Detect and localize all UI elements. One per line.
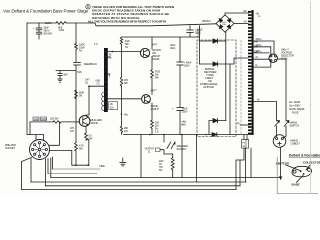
wire R4 to TR3 (61, 121, 80, 123)
wire x225.8 down (225, 41, 227, 121)
wire left rail (26, 23, 28, 135)
wire feedback tap y70 (56, 70, 76, 72)
wire socket lower right stub (49, 150, 72, 152)
resistor R9 (171, 158, 174, 171)
jack switch symbol (167, 142, 171, 149)
terminal strip bar (252, 10, 254, 135)
wire bias y122 (30, 121, 53, 123)
svg-text:250VAC: 250VAC (202, 19, 211, 23)
wire bottom bus A (51, 177, 281, 179)
svg-text:Tr4?: Tr4? (152, 43, 157, 47)
junction 45v (121, 113, 123, 115)
transistor TR2 (142, 95, 151, 104)
svg-text:RHS: RHS (41, 117, 46, 121)
svg-text:600 SW: 600 SW (44, 32, 53, 36)
wire to R9 (172, 154, 174, 158)
wire strip bottom legs (239, 160, 241, 186)
wire TR1 collector up (151, 37, 153, 49)
transformer T1 winding arcs (102, 92, 104, 110)
wire corner to strip (234, 58, 248, 64)
wire collector rail y37 (122, 36, 200, 38)
svg-text:(4): (4) (109, 56, 112, 60)
wire drop x196.5 (196, 135, 198, 183)
resistor R5 (120, 126, 122, 133)
svg-text:SOCKET: SOCKET (5, 146, 15, 150)
wire inverted U (72, 151, 89, 166)
svg-text:SWITCH: SWITCH (290, 124, 300, 128)
TO-3 package outline (292, 166, 312, 177)
wire top bus right of R1 (67, 22, 96, 24)
svg-text:NKT?: NKT? (151, 89, 158, 93)
transformer T1 core bar (104, 48, 108, 112)
svg-text:8uF: 8uF (64, 73, 69, 77)
svg-text:4 A: 4 A (244, 20, 248, 24)
resistor R8 (151, 120, 154, 128)
wire diode row C (209, 120, 226, 122)
wire fuse down (236, 148, 244, 189)
svg-text:m.: m. (258, 15, 261, 18)
wire socket second top (35, 135, 37, 141)
wire bottom stub E (53, 168, 100, 170)
diode D2 (213, 62, 218, 66)
resistor R5b mid (120, 77, 122, 86)
resistor R7 (151, 70, 154, 79)
wire strip to fuse (243, 135, 245, 140)
svg-text:AD149: AD149 (152, 57, 160, 61)
svg-text:(40v): (40v) (170, 46, 175, 50)
svg-text:(T): (T) (97, 82, 100, 86)
wire output drop (163, 135, 165, 143)
junction dot (112, 51, 114, 53)
svg-text:AD149: AD149 (91, 121, 99, 125)
wire bottom bus C (45, 185, 240, 187)
transistor TR1 (140, 48, 149, 57)
wire rail corner to socket (27, 135, 44, 141)
resistor R11 (75, 143, 78, 151)
switch S2 (284, 121, 288, 126)
wire fuse right leg (250, 148, 252, 177)
junction dot mid rail (121, 51, 123, 53)
svg-text:240v~: 240v~ (256, 37, 263, 41)
wire socket pin drops (22, 158, 32, 190)
wire T1 top to TR1 (108, 51, 141, 53)
wire x209 to bus (208, 121, 210, 135)
resistor R10 (85, 133, 88, 140)
svg-text:T.C.: T.C. (94, 42, 98, 46)
TO-3 pins (300, 170, 302, 172)
capacitor C1a plates (36, 27, 42, 29)
wire reservoir rail x180 (179, 37, 181, 62)
wire diode row B (200, 63, 235, 65)
wire HT mid vertical (121, 45, 123, 77)
terminal strip teeth (248, 11, 252, 134)
mains plug circle (273, 135, 286, 148)
wire plug down (280, 147, 282, 178)
capacitor C2 feedback (74, 61, 81, 63)
svg-text:Vox Defiant & Foundation Bass: Vox Defiant & Foundation Bass Power Stag… (3, 9, 89, 14)
wire mid vertical lower (121, 86, 123, 126)
label boxed LHS (33, 117, 39, 121)
svg-text:COLLECTOR: COLLECTOR (303, 160, 320, 164)
svg-text:PLUG: PLUG (281, 57, 288, 61)
svg-text:ALL THE VOLTAGE READINGS WIT: ALL THE VOLTAGE READINGS WITH RESPECT TO… (88, 20, 166, 24)
wire bottom bus B (31, 181, 246, 183)
wire below R2 (75, 50, 77, 63)
wire diode row A (200, 40, 226, 42)
wire fuse feed (253, 102, 276, 121)
resistor R2 (75, 44, 78, 50)
wire R8 to bus (151, 128, 153, 134)
wire x76 below bias (75, 122, 77, 143)
diode D4 (213, 119, 218, 123)
ground C3 (58, 78, 62, 80)
transformer tap marks (108, 56, 110, 58)
mains selector circle (269, 54, 277, 62)
wire switches to plug (276, 126, 278, 137)
wire screen branch vertical x76 (75, 23, 77, 44)
resistor R3 on x76 (75, 90, 78, 99)
wire R7 to TR2 (151, 78, 153, 95)
wire bridge top out (225, 13, 249, 15)
junction dot U (87, 164, 89, 166)
fuse box FS1 (242, 140, 249, 149)
svg-text:Defiant & Foundation: Defiant & Foundation (289, 153, 320, 157)
bridge diode blades (219, 19, 222, 23)
svg-text:8.2K: 8.2K (77, 70, 82, 74)
wire R5 to bus (121, 133, 123, 135)
wire TR1 emitter down (151, 57, 153, 70)
wire bridge bottom down (225, 32, 227, 41)
svg-text:AS BY100: AS BY100 (203, 85, 214, 89)
svg-text:BASE: BASE (292, 182, 300, 186)
wire bias left drop (29, 122, 31, 135)
capacitor C1b plates (36, 31, 42, 33)
label boxed RHS (41, 117, 47, 121)
junction dot tap (88, 85, 90, 87)
svg-text:0.68u: 0.68u (99, 164, 105, 168)
wire socket right to bias (49, 122, 59, 145)
wire TR3 emitter down (85, 126, 87, 133)
capacitor C6 vertical x190 (189, 26, 191, 30)
svg-text:1.5A: 1.5A (222, 23, 227, 26)
svg-text:Q: Q (148, 150, 150, 154)
wire top bus left (27, 22, 56, 24)
jack tip component (156, 148, 161, 151)
wire strip mid tap (240, 124, 250, 126)
dashed rectifier box (197, 40, 236, 137)
svg-text:FEEDBACK: FEEDBACK (84, 62, 97, 66)
svg-text:Tw: Tw (79, 49, 82, 53)
preamp socket circle (30, 140, 50, 160)
wire bottom stub F (48, 173, 97, 175)
label boxed 10K bias (109, 102, 118, 110)
transistor TR3 output (79, 116, 90, 127)
capacitor C4 (177, 61, 183, 63)
bridge BR1 diamond (216, 15, 234, 32)
svg-text:(BA): (BA) (181, 123, 186, 127)
switch S1 (275, 121, 279, 126)
resistor R6 on mid vertical (120, 37, 122, 45)
svg-text:LHS: LHS (34, 117, 39, 121)
svg-text:CABLE?: CABLE? (291, 142, 301, 146)
wire R9 down (172, 170, 174, 178)
svg-text:FUSE: FUSE (292, 111, 299, 115)
mains selector wires (254, 41, 274, 54)
svg-text:220v~: 220v~ (256, 43, 263, 47)
wire TR2 emitter down (151, 103, 153, 120)
capacitor C3 small (59, 71, 61, 74)
dashed line x241 (240, 40, 242, 135)
svg-text:Sw - MAIN: Sw - MAIN (289, 100, 300, 104)
diode D1 (213, 39, 218, 43)
wire bottom bus D (22, 189, 237, 191)
page edge line (310, 2, 312, 193)
wire drop x141 (140, 135, 142, 178)
svg-text:B: B (87, 5, 89, 9)
wire R11 down (75, 151, 77, 165)
resistor R4 (53, 121, 61, 124)
svg-text:EMITTER: EMITTER (276, 161, 290, 165)
TO-3 panel box (277, 157, 318, 194)
svg-text:10W: 10W (59, 28, 65, 32)
wire R10 down (86, 140, 89, 165)
capacitor C5 (177, 107, 183, 109)
wire bridge right out (234, 23, 248, 25)
wire main ground bus y134.5 (123, 134, 212, 136)
wire selector down (285, 59, 287, 121)
wire selector right exit (277, 58, 286, 60)
wire HT feed to bridge (95, 23, 216, 26)
socket pins (38, 142, 40, 144)
svg-text:AAA: AAA (45, 21, 52, 25)
junction dot U x76 (75, 164, 77, 166)
ground symbol (122, 158, 124, 163)
svg-text:Tw: Tw (125, 45, 128, 49)
wire x230 down (229, 64, 231, 135)
arrow end (279, 177, 281, 180)
resistor R1 on top bus (56, 22, 67, 25)
wire cap stub (38, 23, 40, 28)
diode D3 on bus (212, 133, 217, 137)
wire tap down (199, 26, 201, 64)
TO-3 mounting holes (293, 170, 296, 173)
wire T1 left tap to TR3 (86, 86, 105, 116)
svg-text:NOTE: MAINS: NOTE: MAINS (289, 107, 305, 111)
wire drop x182 (181, 135, 183, 178)
wire below C2 (75, 65, 77, 122)
junction dots on bus (149, 134, 151, 136)
note circled B (86, 5, 90, 9)
svg-text:(C): (C) (85, 81, 88, 85)
svg-text:Sw = 250V: Sw = 250V (289, 104, 301, 108)
svg-text:(O): (O) (110, 106, 114, 110)
svg-text:100V: 100V (182, 110, 188, 114)
svg-text:115v~: 115v~ (256, 49, 263, 53)
wire T1 lower to TR2 (108, 98, 142, 100)
svg-text:15K 5W: 15K 5W (50, 117, 59, 121)
svg-text:100V: 100V (184, 64, 190, 68)
